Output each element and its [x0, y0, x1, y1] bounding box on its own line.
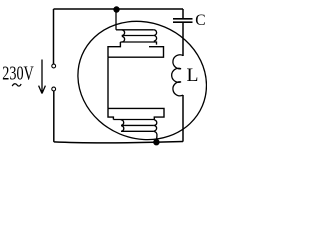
svg-text:230V: 230V	[2, 63, 34, 85]
svg-text:L: L	[187, 66, 199, 86]
svg-text:C: C	[195, 12, 205, 29]
